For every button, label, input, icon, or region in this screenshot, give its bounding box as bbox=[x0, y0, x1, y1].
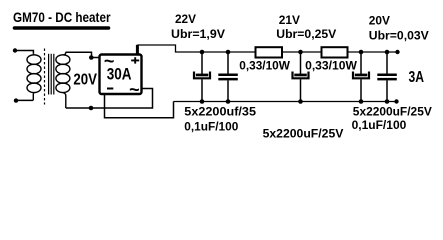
svg-text:Ubr=0,25V: Ubr=0,25V bbox=[276, 27, 336, 41]
transformer T1 primary winding bbox=[27, 53, 41, 100]
svg-text:3A: 3A bbox=[409, 69, 425, 86]
svg-text:20V: 20V bbox=[73, 72, 97, 89]
capacitor C4 electrolytic 5x2200uF/25V bbox=[359, 50, 364, 55]
wire: top rail bbox=[137, 45, 397, 52]
capacitor C1 electrolytic 5x2200uf/35 bbox=[200, 50, 205, 55]
label + top-right bbox=[131, 57, 139, 63]
transformer core line 3 bbox=[53, 54, 55, 95]
svg-text:0,33/10W: 0,33/10W bbox=[239, 58, 290, 72]
wire: primary bottom lead bbox=[16, 99, 33, 101]
capacitor C2 film 0,1uF/100 bbox=[226, 50, 231, 55]
svg-text:0,1uF/100: 0,1uF/100 bbox=[352, 118, 407, 132]
node: junction between resistors bbox=[298, 50, 303, 55]
bridge rectifier B1 30A bbox=[100, 55, 142, 95]
svg-text:5x2200uF/25V: 5x2200uF/25V bbox=[353, 104, 432, 118]
wire: secondary bottom return to rectifier ~ bbox=[66, 89, 153, 109]
svg-text:30A: 30A bbox=[107, 66, 132, 84]
node: output + terminal bbox=[395, 50, 399, 54]
capacitor C5 film 0,1uF/100 bbox=[385, 50, 390, 55]
node: bend dot secondary top bbox=[89, 55, 94, 60]
wire: primary top lead bbox=[15, 51, 33, 54]
svg-text:5x2200uF/25V: 5x2200uF/25V bbox=[263, 126, 344, 140]
title underline bar bbox=[15, 26, 109, 30]
svg-text:22V: 22V bbox=[175, 12, 196, 26]
node: dot on return wire bbox=[89, 106, 94, 111]
svg-text:5x2200uf/35: 5x2200uf/35 bbox=[184, 105, 256, 119]
node: primary bottom terminal bbox=[14, 98, 18, 102]
svg-text:~: ~ bbox=[129, 79, 140, 99]
node: output - terminal bbox=[394, 99, 398, 103]
svg-text:20V: 20V bbox=[369, 14, 390, 28]
svg-text:Ubr=0,03V: Ubr=0,03V bbox=[369, 28, 429, 42]
transformer core line 2 bbox=[50, 54, 52, 95]
wire: rectifier + up to top rail bbox=[136, 45, 139, 55]
transformer core screen (dashed) bbox=[44, 49, 46, 105]
node: primary top terminal bbox=[13, 48, 17, 52]
svg-text:Ubr=1,9V: Ubr=1,9V bbox=[171, 27, 225, 41]
capacitor C3 electrolytic 5x2200uF/25V bbox=[300, 52, 302, 75]
transformer core line 1 bbox=[48, 54, 50, 95]
wire: secondary top to rectifier bbox=[66, 52, 100, 57]
svg-text:0,1uF/100: 0,1uF/100 bbox=[184, 119, 238, 133]
wire: rectifier - down and right bbox=[105, 94, 174, 118]
resistor R1 0,33/10W bbox=[256, 47, 283, 57]
label - bottom-left bbox=[107, 88, 113, 90]
resistor R2 0,33/10W bbox=[322, 47, 348, 57]
wire: bottom rail bbox=[174, 101, 397, 103]
transformer T1 secondary winding bbox=[56, 52, 70, 108]
svg-text:GM70 - DC heater: GM70 - DC heater bbox=[13, 9, 111, 25]
svg-text:0,33/10W: 0,33/10W bbox=[305, 58, 357, 72]
svg-text:21V: 21V bbox=[279, 13, 300, 27]
